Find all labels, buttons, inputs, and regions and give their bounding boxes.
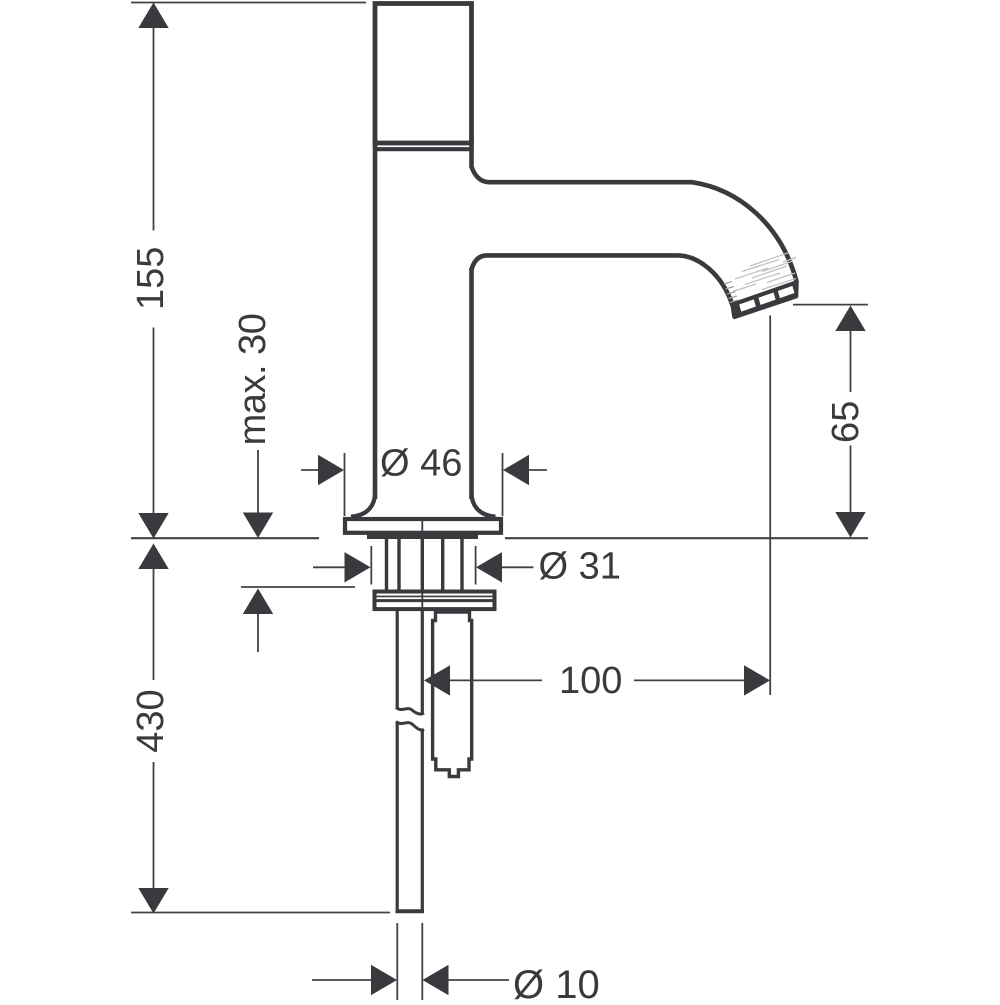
svg-text:65: 65	[825, 401, 867, 443]
arrow 65 bottom	[835, 512, 865, 538]
centerline through flange	[421, 518, 423, 538]
threaded shank line 3	[421, 539, 424, 590]
pipe bottom cap	[396, 909, 425, 913]
svg-text:100: 100	[559, 660, 622, 702]
locknut ring thin inner line	[377, 595, 493, 597]
aerator slot 1	[739, 299, 756, 311]
dim 100 right tail	[634, 679, 745, 681]
dim 46 left tail	[301, 469, 321, 471]
locknut ring thick inner line	[377, 599, 493, 602]
dim 10 left tail	[312, 979, 372, 981]
ext line 46 left	[344, 453, 346, 516]
dim 46 right tail	[527, 469, 547, 471]
arrow 430 bottom	[138, 888, 168, 914]
pop-up rod housing	[433, 612, 472, 777]
svg-text:155: 155	[130, 247, 172, 310]
hatch cluster near inner edge	[724, 282, 738, 303]
arrow 31 right	[476, 552, 502, 582]
svg-text:Ø 46: Ø 46	[380, 443, 462, 485]
supply pipe right edge	[421, 611, 424, 714]
pipe break squiggle lower	[396, 722, 424, 731]
faucet spout outline	[472, 167, 797, 317]
extension line bottom (430)	[131, 912, 390, 914]
dim line 65	[850, 330, 852, 392]
deck line left	[131, 537, 319, 539]
ext line 10 left	[396, 923, 398, 1000]
extension line underside (max30)	[241, 586, 355, 588]
arrow max30 down	[243, 513, 273, 539]
extension line top (155)	[131, 2, 366, 4]
arrowheads	[138, 3, 865, 996]
svg-text:max. 30: max. 30	[232, 314, 274, 446]
arrow 155 bottom	[138, 513, 168, 539]
dim line 155	[153, 27, 155, 231]
threaded shank line 2	[397, 539, 400, 590]
ext line 10 right	[421, 923, 423, 1000]
threaded shank line 5	[460, 539, 463, 590]
dim 100 left tail	[449, 679, 542, 681]
supply pipe left edge	[396, 611, 399, 708]
dim line 430	[153, 568, 155, 680]
arrow 31 left	[345, 552, 371, 582]
ext line 31 left	[370, 546, 372, 585]
aerator cap band	[733, 281, 798, 317]
body right edge lower segment	[469, 268, 474, 499]
svg-text:430: 430	[130, 689, 172, 752]
flange plate	[345, 519, 501, 533]
base fillet right	[472, 494, 496, 517]
arrow 100 left	[424, 665, 450, 695]
ext line 31 right	[475, 546, 477, 585]
dim 31 right tail	[502, 566, 534, 568]
locknut ring outline	[375, 592, 495, 610]
aerator slot 2	[758, 293, 775, 305]
arrow 46 right	[503, 455, 529, 485]
arrow 100 right	[744, 665, 770, 695]
arrow 65 top	[835, 306, 865, 332]
faucet handle (top section)	[375, 4, 472, 144]
dim line max30 upper	[257, 450, 259, 514]
body top line below handle gap	[373, 147, 474, 151]
body right edge upper segment	[469, 138, 474, 168]
arrow 155 top	[138, 3, 168, 29]
threaded shank line 4	[441, 539, 444, 590]
aerator slot 3	[778, 286, 795, 298]
threaded shank line 1	[385, 539, 388, 590]
arrow 10 right	[423, 965, 449, 995]
arrow max30 up	[243, 589, 273, 615]
outlet vertical reference line	[769, 316, 771, 696]
body left edge	[373, 138, 378, 499]
arrow 46 left	[318, 455, 344, 485]
deck line right	[505, 537, 868, 539]
centerline through ring	[421, 591, 423, 610]
arrow 430 top	[138, 544, 168, 570]
dim 31 left tail	[313, 566, 346, 568]
ext line 46 right	[502, 453, 504, 516]
gasket strip (dark)	[367, 534, 478, 539]
arrow 10 left	[371, 965, 397, 995]
dim line max30 lower	[257, 613, 259, 652]
pipe break squiggle upper	[396, 708, 424, 715]
aerator hatching	[733, 253, 796, 292]
svg-text:Ø 10: Ø 10	[513, 963, 600, 1000]
dim 10 right tail	[448, 979, 509, 981]
ext line 65 top	[793, 304, 868, 306]
svg-text:Ø 31: Ø 31	[539, 546, 621, 588]
base fillet left	[351, 494, 375, 517]
